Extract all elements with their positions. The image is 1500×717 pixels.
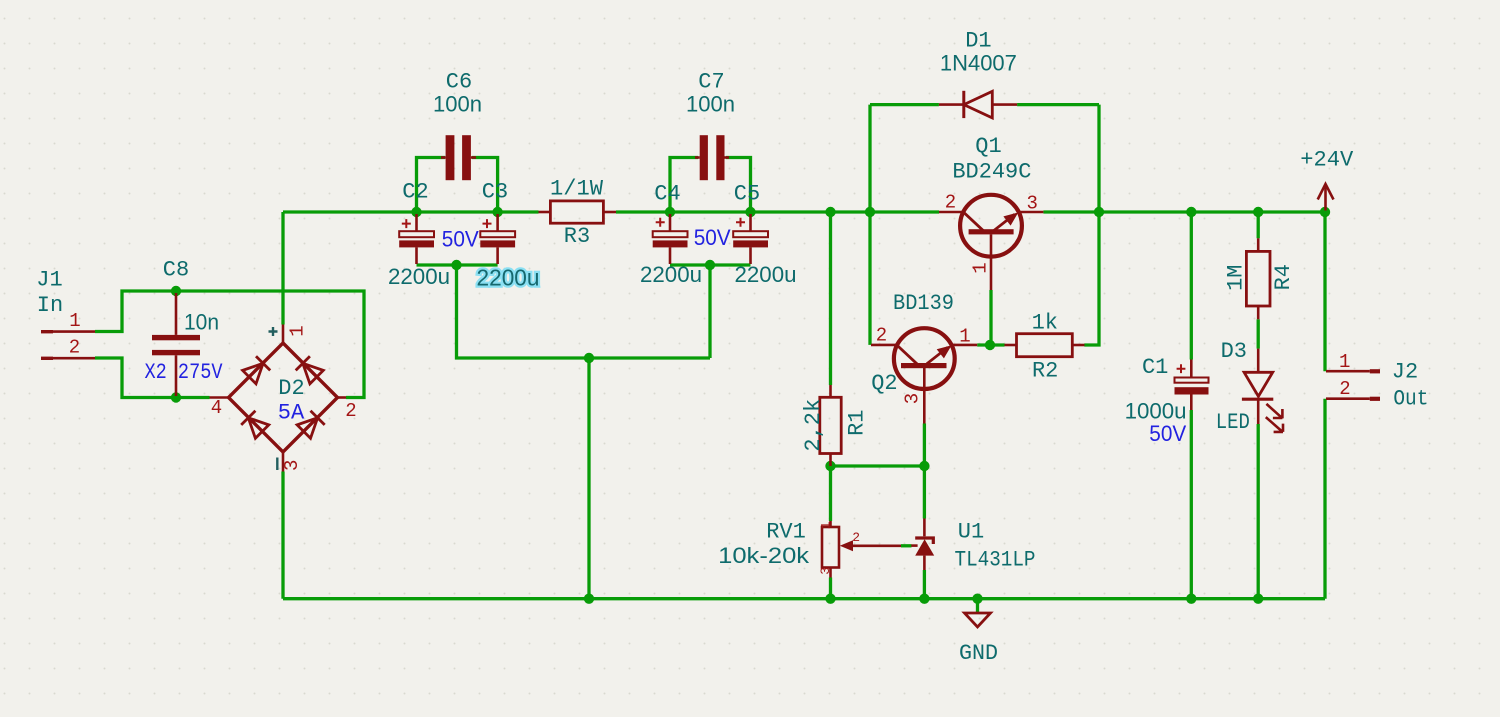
junction bottom rail RV1: [825, 594, 835, 604]
junction C2 rail: [411, 207, 421, 217]
svg-text:R3: R3: [564, 224, 590, 249]
resistor R1: [820, 385, 841, 466]
junction bottom rail mid: [584, 594, 594, 604]
wire bridge pin3 to bottom rail: [281, 472, 284, 599]
svg-text:Q2: Q2: [871, 371, 897, 396]
junction D1 right rail: [1094, 207, 1104, 217]
junction bottom rail U1: [919, 594, 929, 604]
junction C8 bottom: [171, 392, 181, 402]
svg-text:GND: GND: [959, 641, 998, 666]
svg-text:+24V: +24V: [1300, 148, 1354, 173]
svg-text:50V: 50V: [442, 227, 479, 252]
svg-text:2: 2: [945, 192, 956, 214]
potentiometer RV1: [822, 521, 901, 578]
svg-text:J1: J1: [36, 268, 62, 293]
svg-text:R1: R1: [844, 409, 869, 435]
junction C1 rail: [1186, 207, 1196, 217]
wire J1 pin2 to bridge pin4: [95, 358, 210, 398]
junction C2C3 bottom: [451, 260, 461, 270]
wire C6 right loop: [472, 158, 498, 213]
svg-text:1: 1: [69, 310, 80, 332]
wire D1 cathode horizontal: [870, 103, 939, 106]
capacitor C3: [480, 214, 515, 264]
wire rail to Q2 base: [868, 212, 871, 345]
wire R1 node to RV1: [829, 466, 832, 521]
LED D3: [1242, 349, 1283, 432]
wire D1 cathode riser: [868, 105, 871, 212]
svg-text:C2: C2: [402, 180, 428, 205]
wire left drop rail to bridge pin1: [281, 212, 284, 325]
wire R1 bottom node horizontal: [831, 464, 925, 467]
svg-text:X2 275V: X2 275V: [145, 360, 224, 385]
capacitor C4: [653, 214, 688, 264]
wire GND stub: [976, 599, 979, 613]
junction C5 rail: [745, 207, 755, 217]
connector J2: [1326, 369, 1380, 401]
diode D1: [939, 91, 1017, 118]
svg-text:C5: C5: [734, 182, 760, 207]
svg-text:50V: 50V: [1149, 421, 1186, 446]
wire rail to R4: [1257, 212, 1260, 238]
junction D1 left rail: [865, 207, 875, 217]
wire mid node to bottom rail: [587, 358, 590, 599]
transistor Q1: [939, 195, 1043, 290]
svg-text:3: 3: [901, 393, 923, 404]
capacitor C6: [441, 135, 476, 180]
svg-text:2: 2: [852, 530, 860, 545]
svg-text:3: 3: [281, 460, 303, 471]
svg-text:In: In: [37, 293, 63, 318]
wire U1 anode to bottom rail: [923, 570, 926, 599]
bridge rectifier D2: [210, 325, 347, 472]
svg-text:2: 2: [69, 337, 80, 359]
junction C3 rail: [492, 207, 502, 217]
wire RV1 to bottom rail: [829, 578, 832, 599]
resistor R2: [1005, 334, 1085, 357]
svg-text:1N4007: 1N4007: [940, 51, 1017, 76]
svg-text:C3: C3: [482, 180, 508, 205]
svg-text:4: 4: [211, 397, 222, 419]
wire mid drop from C4C5: [708, 265, 711, 358]
wire Q2 emitter to U1 cathode: [923, 424, 926, 519]
svg-text:2200u: 2200u: [388, 264, 450, 289]
svg-text:1000u: 1000u: [1125, 399, 1187, 424]
transistor Q2: [871, 328, 977, 423]
connector J1: [41, 330, 95, 360]
svg-text:100n: 100n: [686, 92, 735, 117]
wire C2 C3 bottom link: [417, 263, 498, 266]
wire J1 pin1 to bridge pin2: [95, 291, 364, 398]
svg-text:1: 1: [1339, 351, 1350, 373]
wire top rail middle segment: [616, 210, 939, 213]
svg-text:BD249C: BD249C: [952, 160, 1031, 185]
junction bottom rail C1: [1186, 594, 1196, 604]
wire Q1 base to node: [989, 290, 992, 345]
wire C7 left loop: [670, 158, 698, 213]
svg-text:D3: D3: [1221, 339, 1247, 364]
junction C4 rail: [665, 207, 675, 217]
wire D1 anode horizontal: [1017, 103, 1099, 106]
capacitor C2: [399, 214, 434, 264]
svg-text:D2: D2: [278, 376, 304, 401]
shunt regulator U1: [911, 519, 934, 571]
power symbol +24V: [1318, 184, 1334, 211]
svg-text:2200u: 2200u: [477, 265, 540, 291]
capacitor C1: [1175, 360, 1209, 411]
svg-text:3: 3: [1026, 193, 1037, 215]
svg-text:3: 3: [818, 567, 833, 575]
svg-text:100n: 100n: [433, 92, 482, 117]
wire D1 anode drop: [1097, 105, 1100, 212]
wire C4 C5 bottom link: [670, 263, 751, 266]
junction Q2 emitter node: [919, 461, 929, 471]
wire J2 pin1 riser: [1323, 212, 1326, 371]
ground symbol: [965, 613, 991, 627]
junction bottom rail GND: [972, 594, 982, 604]
capacitor C8: [152, 293, 200, 396]
wire R4 to D3: [1257, 319, 1260, 348]
svg-text:2200u: 2200u: [735, 262, 797, 287]
junction +24V rail: [1320, 207, 1330, 217]
svg-text:2: 2: [345, 400, 356, 422]
junction R1 bottom: [825, 461, 835, 471]
wire bottom rail: [283, 597, 1325, 600]
wire D3 to bottom rail: [1257, 424, 1260, 599]
junction bottom rail D3: [1253, 594, 1263, 604]
wire Q2 collector to R2: [977, 343, 1004, 346]
svg-text:1k: 1k: [1032, 311, 1058, 336]
svg-text:J2: J2: [1392, 360, 1418, 385]
resistor R3: [539, 201, 617, 223]
svg-text:2: 2: [876, 325, 887, 347]
wire rail to R1: [829, 212, 832, 385]
svg-text:1: 1: [287, 325, 309, 336]
junction mid node: [584, 353, 594, 363]
svg-text:1/1W: 1/1W: [550, 177, 604, 202]
wire J2 pin2 riser: [1323, 399, 1326, 599]
wire mid drop from C2C3: [457, 265, 711, 358]
svg-text:R4: R4: [1271, 264, 1296, 290]
svg-text:2200u: 2200u: [640, 262, 702, 287]
wire rail to C1: [1190, 212, 1193, 360]
svg-text:C8: C8: [163, 258, 189, 283]
wire R2 right to rail: [1084, 213, 1099, 345]
svg-text:C4: C4: [654, 182, 680, 207]
svg-text:R2: R2: [1032, 359, 1058, 384]
svg-text:1: 1: [819, 521, 834, 529]
junction R4 rail: [1253, 207, 1263, 217]
junction Q2 collector node: [985, 340, 995, 350]
svg-text:LED: LED: [1216, 410, 1250, 435]
wire top rail left segment: [283, 210, 539, 213]
junction R1 rail: [825, 207, 835, 217]
wire top rail right segment: [1043, 210, 1325, 213]
capacitor C5: [733, 214, 768, 264]
wire C7 right loop: [726, 158, 751, 213]
wire C6 left loop: [417, 158, 446, 213]
svg-text:1: 1: [959, 326, 970, 348]
wire RV1 wiper to U1 ref: [901, 544, 912, 547]
svg-text:TL431LP: TL431LP: [955, 548, 1036, 573]
junction C4C5 bottom: [705, 260, 715, 270]
svg-text:BD139: BD139: [893, 291, 954, 316]
svg-text:C1: C1: [1142, 355, 1168, 380]
capacitor C7: [695, 135, 729, 180]
svg-text:10n: 10n: [184, 310, 219, 335]
svg-text:Q1: Q1: [975, 134, 1001, 159]
svg-text:1M: 1M: [1224, 264, 1249, 290]
svg-text:Out: Out: [1393, 387, 1428, 412]
svg-text:U1: U1: [958, 520, 984, 545]
junction C8 top: [171, 286, 181, 296]
svg-text:1: 1: [969, 262, 991, 273]
wire C1 to bottom rail: [1190, 410, 1193, 599]
svg-text:5A: 5A: [278, 401, 305, 426]
svg-text:50V: 50V: [694, 225, 731, 250]
svg-text:RV1: RV1: [766, 520, 806, 545]
svg-text:10k-20k: 10k-20k: [718, 543, 810, 568]
resistor R4: [1246, 238, 1270, 319]
svg-text:2: 2: [1339, 378, 1350, 400]
svg-text:2,2k: 2,2k: [801, 399, 826, 452]
